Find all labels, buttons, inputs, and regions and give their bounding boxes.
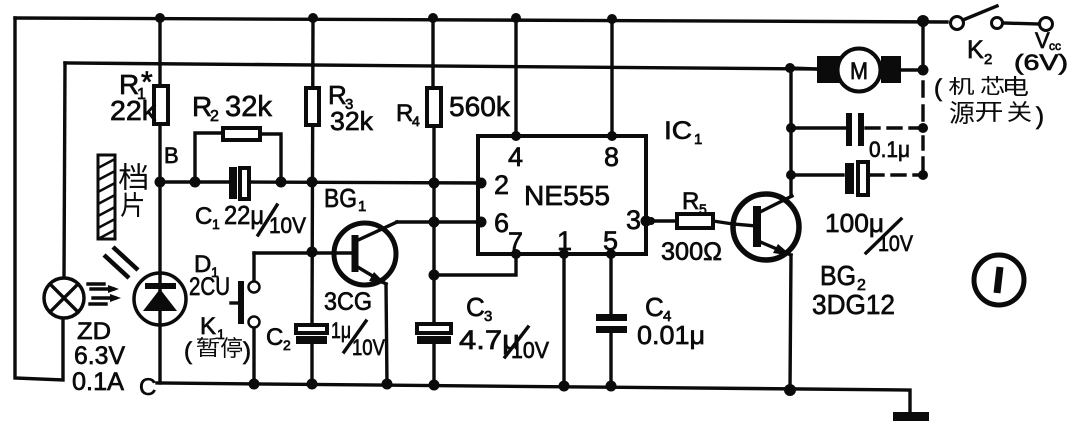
svg-text:M: M	[850, 58, 868, 85]
svg-text:0.1μ: 0.1μ	[869, 137, 910, 162]
svg-text:7: 7	[508, 227, 523, 257]
svg-text:2: 2	[210, 108, 219, 125]
svg-text:BG: BG	[820, 260, 856, 291]
svg-text:0.01μ: 0.01μ	[637, 320, 705, 350]
svg-text:R: R	[396, 100, 413, 127]
svg-text:2: 2	[494, 170, 509, 200]
svg-text:3DG12: 3DG12	[812, 289, 895, 320]
svg-text:22k: 22k	[110, 95, 157, 126]
svg-text:): )	[1036, 103, 1044, 130]
svg-text:BG: BG	[324, 183, 357, 213]
svg-text:IC: IC	[664, 117, 692, 145]
svg-text:C: C	[195, 203, 212, 230]
svg-text:(: (	[934, 75, 942, 102]
svg-text:C: C	[645, 292, 664, 322]
svg-text:6.3V: 6.3V	[74, 342, 125, 370]
svg-text:4: 4	[412, 113, 420, 129]
svg-text:22μ: 22μ	[224, 200, 264, 230]
svg-text:300Ω: 300Ω	[661, 238, 722, 266]
svg-text:32k: 32k	[225, 91, 272, 123]
svg-text:1: 1	[217, 326, 225, 342]
svg-text:B: B	[164, 143, 179, 168]
svg-text:1: 1	[358, 198, 366, 215]
svg-text:(6V): (6V)	[1014, 50, 1068, 75]
svg-text:5: 5	[699, 201, 707, 217]
svg-text:C: C	[139, 374, 156, 401]
svg-text:(: (	[184, 338, 192, 365]
svg-text:1μ: 1μ	[331, 318, 351, 343]
svg-text:C: C	[266, 324, 283, 351]
svg-text:1: 1	[557, 226, 572, 256]
svg-text:K: K	[200, 313, 216, 340]
svg-text:3CG: 3CG	[324, 288, 372, 316]
svg-text:5: 5	[603, 226, 618, 256]
svg-text:2: 2	[283, 337, 291, 353]
svg-text:2CU: 2CU	[189, 273, 230, 301]
svg-text:NE555: NE555	[524, 180, 610, 211]
svg-text:4: 4	[508, 142, 523, 172]
svg-text:): )	[243, 338, 251, 365]
svg-text:3: 3	[626, 205, 641, 235]
svg-text:10V: 10V	[269, 213, 306, 238]
svg-text:6: 6	[494, 208, 509, 238]
svg-text:560k: 560k	[449, 91, 511, 122]
svg-text:1: 1	[694, 131, 702, 148]
svg-text:100μ: 100μ	[825, 208, 884, 238]
svg-text:K: K	[967, 36, 984, 64]
svg-text:10V: 10V	[352, 335, 385, 360]
svg-text:R: R	[682, 188, 699, 215]
svg-text:32k: 32k	[330, 106, 374, 136]
svg-text:C: C	[466, 292, 485, 322]
svg-text:1: 1	[212, 216, 220, 232]
svg-text:0.1A: 0.1A	[72, 368, 124, 396]
svg-text:ZD: ZD	[77, 318, 111, 345]
svg-text:3: 3	[484, 308, 492, 325]
svg-text:8: 8	[604, 142, 619, 172]
svg-text:2: 2	[984, 51, 992, 68]
